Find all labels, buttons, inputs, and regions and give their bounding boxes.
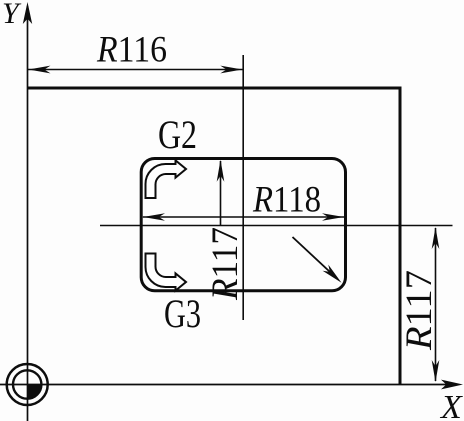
svg-text:R118: R118 xyxy=(252,180,321,221)
G3 direction arrow xyxy=(146,254,187,291)
pocket xyxy=(141,159,345,291)
svg-text:R117: R117 xyxy=(399,270,440,351)
workpiece outline xyxy=(28,88,401,385)
svg-text:R116: R116 xyxy=(96,30,167,71)
svg-text:X: X xyxy=(439,389,463,421)
G2 direction arrow xyxy=(146,160,187,198)
origin symbol xyxy=(7,364,48,405)
svg-text:G3: G3 xyxy=(164,291,201,336)
radius leader arrow xyxy=(293,237,342,283)
dimension R116 xyxy=(28,30,244,74)
centerline xyxy=(100,225,453,227)
dimension R117 pocket vertical xyxy=(217,160,225,226)
dimension R118 xyxy=(143,180,344,221)
dimension R117 right xyxy=(432,227,440,382)
Y axis xyxy=(23,2,32,421)
svg-text:G2: G2 xyxy=(158,112,197,157)
R116 extension line xyxy=(242,55,244,320)
svg-text:R117: R117 xyxy=(205,227,246,301)
X axis xyxy=(0,380,463,390)
